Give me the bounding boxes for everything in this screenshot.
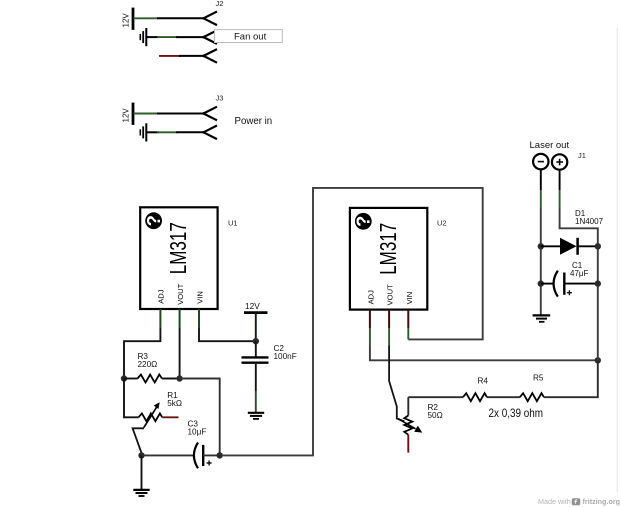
svg-text:12V: 12V <box>245 301 260 311</box>
svg-text:fritzing.org: fritzing.org <box>583 497 620 506</box>
svg-text:12V: 12V <box>122 108 131 123</box>
svg-text:2x 0,39 ohm: 2x 0,39 ohm <box>489 406 544 420</box>
svg-text:U1: U1 <box>228 219 238 228</box>
faint scan edge <box>616 28 618 492</box>
node ADJ bus <box>595 357 601 363</box>
power symbol 12V (J3) <box>132 104 135 124</box>
svg-text:100nF: 100nF <box>274 352 297 361</box>
svg-text:VOUT: VOUT <box>176 283 185 304</box>
pin VIN of U2 <box>407 310 409 328</box>
svg-text:R5: R5 <box>533 373 544 382</box>
power symbol 12V (J2) <box>132 9 135 29</box>
pin 2 of J3 <box>204 126 217 139</box>
svg-text:ADJ: ADJ <box>157 289 166 304</box>
svg-text:50Ω: 50Ω <box>428 411 443 420</box>
pin ADJ of U2 <box>369 310 371 328</box>
wire ground to pin 2 <box>147 131 158 133</box>
svg-text:R4: R4 <box>478 376 489 385</box>
R2 wiper arrow <box>398 419 415 429</box>
svg-text:J2: J2 <box>216 0 224 8</box>
wire R1 wiper bend to bottom node <box>133 428 144 453</box>
svg-text:1N4007: 1N4007 <box>575 217 604 226</box>
wire VIN pin to loop <box>407 328 409 339</box>
svg-text:LM317: LM317 <box>375 223 401 275</box>
node C3 left <box>138 452 144 458</box>
wire VOUT down <box>179 328 181 379</box>
wire VOUT down to R2 <box>388 328 390 346</box>
svg-text:Made with: Made with <box>538 497 571 506</box>
node R3 right / VOUT <box>176 375 182 381</box>
ground (J3 pin 2) <box>140 124 146 140</box>
R1 wiper arrow <box>144 407 157 427</box>
node VIN/12V junction <box>253 338 259 344</box>
capacitor C2 100nF <box>242 356 269 358</box>
wire minus down <box>540 169 542 190</box>
svg-text:Power in: Power in <box>235 116 273 127</box>
wire R3 left down to R1 <box>124 379 139 418</box>
svg-text:J3: J3 <box>216 94 224 103</box>
Fan out label box <box>215 30 283 43</box>
wire R5 right up to node <box>544 360 598 397</box>
wire C3 right to node <box>203 454 220 456</box>
wire (red) R1 right stub <box>162 416 178 418</box>
node C3 right <box>217 452 223 458</box>
wire ground to pin 2 <box>147 36 158 38</box>
wire C2 to ground <box>255 364 257 391</box>
ground (C3 node) <box>133 490 149 496</box>
pin 3 of J2 <box>204 50 217 63</box>
pin 1 of J2 <box>204 12 217 25</box>
wire node down to ground <box>141 455 143 489</box>
wire VOUT node right then down to C3 <box>180 379 220 456</box>
wire ADJ down then right <box>369 328 371 346</box>
ground (J2 pin 2) <box>140 29 146 45</box>
wire 12V bar down <box>255 313 257 342</box>
wire R4 row <box>408 396 463 398</box>
terminal J1 minus <box>533 154 548 169</box>
svg-text:12V: 12V <box>122 13 131 28</box>
svg-text:J1: J1 <box>578 151 586 160</box>
wire R4 row left corner down <box>407 397 409 415</box>
op-amp U2 LM317 body <box>350 208 427 310</box>
wire (red) pin 3 stub <box>160 55 180 57</box>
node D1 left <box>538 243 544 249</box>
svg-text:47μF: 47μF <box>570 269 589 278</box>
wire right bus down <box>597 246 599 360</box>
wire 12V to pin 1 <box>134 113 158 115</box>
node R3 left <box>121 375 127 381</box>
ground (C2) <box>248 413 264 419</box>
svg-text:VIN: VIN <box>405 292 414 305</box>
wire VIN right to C2 <box>199 328 256 341</box>
node D1 right <box>595 243 601 249</box>
svg-text:U2: U2 <box>437 219 447 228</box>
svg-text:VIN: VIN <box>195 291 204 304</box>
pin VOUT of U2 <box>388 310 390 328</box>
svg-text:5kΩ: 5kΩ <box>167 399 182 408</box>
svg-text:10μF: 10μF <box>188 427 207 436</box>
svg-text:LM317: LM317 <box>165 222 191 274</box>
pin VIN of U1 <box>198 309 200 328</box>
wire big loop (U1 out -> U2 in) <box>223 188 483 456</box>
pin ADJ of U1 <box>159 309 161 328</box>
node C1 right <box>595 280 601 286</box>
ground (J1 minus) <box>533 315 551 321</box>
terminal J1 plus <box>552 154 567 169</box>
svg-text:Fan out: Fan out <box>234 31 267 42</box>
node C1 left <box>538 280 544 286</box>
wire junction to C2 <box>255 341 257 356</box>
pin VOUT of U1 <box>179 309 181 328</box>
wire 12V to pin 1 <box>134 17 158 19</box>
wire ADJ down-left <box>124 328 160 379</box>
svg-text:?: ? <box>143 215 164 226</box>
pin 2 of J2 <box>204 31 217 44</box>
svg-text:?: ? <box>353 216 374 227</box>
svg-text:VOUT: VOUT <box>386 284 395 305</box>
wire node to C3 <box>142 454 194 456</box>
wire R4 to R5 <box>487 396 520 398</box>
wire plus down and over <box>559 170 561 190</box>
svg-text:ADJ: ADJ <box>366 290 375 305</box>
svg-text:Laser out: Laser out <box>530 140 570 151</box>
op-amp U1 LM317 body <box>140 207 217 309</box>
pin 1 of J3 <box>204 107 217 120</box>
wire (red) R2 bottom stub <box>407 435 409 453</box>
svg-text:220Ω: 220Ω <box>138 360 158 369</box>
